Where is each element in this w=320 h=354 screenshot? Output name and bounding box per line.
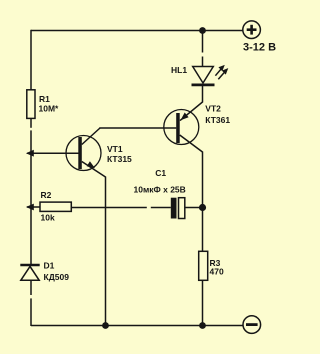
svg-text:КТ361: КТ361 (205, 115, 230, 125)
wire: LED branch from top rail (202, 31, 204, 67)
svg-text:10М*: 10М* (39, 103, 60, 113)
node: arrow at left rail to VT1 base (26, 150, 34, 157)
wire: VT1 emitter down to bottom rail (105, 177, 107, 327)
scan gaps in wires (201, 53, 204, 57)
wire: left rail bottom segment (30, 280, 32, 326)
svg-text:VT2: VT2 (205, 104, 221, 114)
svg-text:3-12 В: 3-12 В (243, 41, 276, 53)
node: top junction (LED branch) (199, 27, 206, 34)
terminal: +3-12V supply (243, 21, 261, 39)
transistor VT2 КТ361 (PNP) (164, 104, 231, 152)
node: bottom junction R3 (199, 322, 206, 329)
wire: R2 left to rail (27, 206, 40, 208)
resistor R1 (27, 90, 59, 119)
wire: top rail (31, 30, 243, 32)
terminal: negative supply (243, 316, 261, 334)
wire: bottom rail (31, 325, 243, 327)
svg-text:R2: R2 (41, 190, 52, 200)
diode D1 КД509 (20, 261, 69, 282)
svg-text:10мкФ х 25В: 10мкФ х 25В (134, 185, 186, 195)
wire: C1 right plate to junction (185, 207, 203, 209)
svg-text:КД509: КД509 (44, 272, 70, 282)
svg-text:10k: 10k (41, 212, 55, 222)
capacitor C1 10мкФ x 25В (134, 168, 186, 219)
wire: R3 to bottom rail (202, 280, 204, 326)
svg-text:С1: С1 (155, 168, 166, 178)
node: arrow at left rail to R2 (26, 204, 34, 211)
node: junction C1 / VT2 collector / R3 (199, 204, 206, 211)
wire: LED cathode to VT2 emitter (180, 85, 203, 121)
svg-text:VT1: VT1 (107, 144, 123, 154)
svg-text:R1: R1 (39, 94, 50, 104)
svg-text:HL1: HL1 (171, 65, 187, 75)
node: bottom junction VT1 emitter (102, 322, 109, 329)
resistor R3 470 (199, 251, 224, 280)
LED HL1 (171, 65, 227, 85)
wire: left rail middle segment (30, 118, 32, 264)
wire: VT2 collector down to junction (202, 152, 204, 252)
svg-text:КТ315: КТ315 (107, 154, 132, 164)
svg-text:470: 470 (210, 266, 224, 276)
wire: left rail top segment (30, 30, 32, 90)
resistor R2 10k (40, 190, 71, 222)
wire: R2 right to C1 (71, 207, 171, 209)
wire: VT1 base from left rail (27, 152, 79, 154)
wire: VT1 collector to VT2 base (99, 127, 176, 129)
svg-text:D1: D1 (44, 261, 55, 271)
transistor VT1 КТ315 (NPN) (66, 128, 132, 177)
